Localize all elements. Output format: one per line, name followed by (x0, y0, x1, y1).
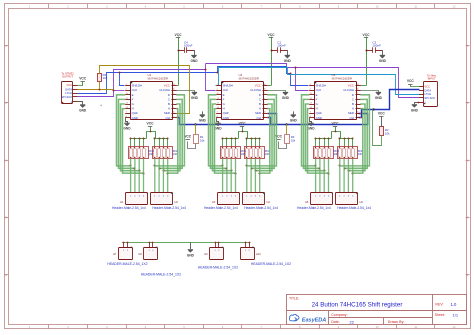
VCC power flag for R3 (275, 135, 286, 149)
wire SH/LD branch to U3 (291, 74, 309, 86)
wire RN2 column 1 to header pin (154, 159, 156, 193)
wire VCC distribution (147, 132, 156, 139)
wire LTCH bus middle segment (blue) (218, 67, 291, 74)
wire RN5 column 1 to header pin (315, 159, 317, 193)
svg-text:B: B (259, 102, 261, 106)
svg-text:INPUT: INPUT (428, 77, 436, 81)
svg-text:B: B (168, 102, 170, 106)
svg-text:VCC: VCC (268, 33, 276, 37)
VCC power flag for RN5/RN6 (332, 122, 340, 132)
capacitor C4 100nF (178, 40, 195, 53)
svg-text:GND: GND (214, 127, 222, 131)
header H7 Header-Male-2.54_1x2 (107, 242, 147, 267)
svg-text:VCC: VCC (332, 122, 340, 126)
svg-text:H10: H10 (256, 252, 261, 256)
svg-text:CLK: CLK (316, 88, 322, 92)
svg-text:1.0: 1.0 (451, 302, 457, 307)
header H9 Header-Male-2.54_1x2 (198, 242, 238, 270)
svg-text:10K: 10K (173, 152, 178, 156)
svg-text:10K: 10K (241, 152, 246, 156)
VCC power flag for RN3/RN4 (239, 122, 247, 132)
wire CLK branch to U1 (114, 90, 125, 92)
svg-text:GND: GND (411, 108, 419, 112)
svg-text:GND: GND (223, 116, 229, 120)
svg-text:D: D (168, 93, 170, 97)
wire button line C of U3 (344, 99, 367, 168)
resistor network RN5 10K (314, 147, 334, 159)
svg-text:QH#: QH# (316, 111, 322, 115)
svg-text:GND: GND (190, 59, 198, 63)
ground at U1 pin 8 (123, 118, 131, 131)
svg-text:VCC: VCC (255, 84, 261, 88)
wire VCC rail right (248, 138, 260, 140)
svg-text:SH/LD#: SH/LD# (316, 84, 327, 88)
svg-text:SPI-SCK: SPI-SCK (424, 96, 435, 100)
svg-text:H4: H4 (267, 200, 271, 204)
svg-text:VCC: VCC (348, 84, 354, 88)
junction DATA / R4 (99, 89, 101, 91)
wire RN4 column 4 to header pin (259, 159, 261, 193)
svg-text:GND: GND (79, 109, 87, 113)
svg-text:SN74HC165DR: SN74HC165DR (239, 77, 259, 81)
svg-text:VCC: VCC (407, 79, 415, 83)
header H1 Header-Male-2.54_1x4 (112, 193, 147, 211)
svg-text:Header-Male-2.54_1x4: Header-Male-2.54_1x4 (204, 206, 238, 210)
svg-text:H: H (316, 107, 318, 111)
wire button line C of U2 (251, 99, 274, 168)
VCC power flag above C2 (268, 33, 276, 38)
wire VCC rail right (341, 138, 353, 140)
wire VCC drop to IC pin 16 (271, 37, 273, 86)
svg-text:100nF: 100nF (277, 44, 286, 48)
svg-text:A: A (168, 107, 170, 111)
resistor network RN4 10K (245, 147, 265, 159)
svg-text:10k: 10k (385, 132, 390, 136)
wire button line F of U2 (211, 99, 227, 168)
svg-text:CLKINH: CLKINH (250, 88, 261, 92)
wire RN2 column 2 to header pin (158, 159, 160, 193)
wire LTCH bus left segment (blue) (78, 73, 218, 94)
svg-text:HEADER-MALE-2.54_1X2: HEADER-MALE-2.54_1X2 (198, 266, 238, 270)
svg-text:D: D (5, 217, 7, 220)
svg-text:10K: 10K (358, 152, 363, 156)
svg-text:VCC: VCC (175, 33, 183, 37)
wire RN5 column 3 to header pin (323, 159, 325, 193)
resistor network RN1 10K (129, 147, 149, 159)
wire serial chain U2.QH to U3.SER (268, 114, 368, 125)
svg-text:H1: H1 (120, 200, 124, 204)
wire RN3 column 4 to header pin (235, 159, 237, 193)
svg-text:10k: 10k (103, 76, 108, 80)
svg-text:GND: GND (187, 254, 195, 258)
svg-text:SPI-SCK: SPI-SCK (61, 95, 72, 99)
wire RN6 column 2 to header pin (343, 159, 345, 193)
svg-text:100nF: 100nF (184, 44, 193, 48)
svg-text:H8: H8 (138, 252, 142, 256)
svg-text:VCC: VCC (79, 77, 87, 81)
svg-text:CLKINH: CLKINH (343, 88, 354, 92)
wire R4 to VCC net (olive) (100, 66, 190, 114)
ground on header rail (187, 242, 195, 257)
svg-text:H2: H2 (175, 200, 179, 204)
header H8 Header-Male-2.54_1x2 (138, 242, 181, 277)
wire RN6 column 3 to header pin (347, 159, 349, 193)
wire RN1 column 3 to header pin (138, 159, 140, 193)
svg-text:QH: QH (166, 116, 170, 120)
wire VCC rail left (223, 138, 239, 140)
connector H14 To Next INPUT (419, 73, 437, 106)
svg-text:VCC: VCC (184, 135, 192, 139)
svg-text:EasyEDA: EasyEDA (302, 317, 326, 323)
ground at U1 CLKINH (177, 91, 199, 101)
svg-text:Date:: Date: (331, 320, 340, 324)
svg-text:SER: SER (164, 111, 170, 115)
svg-text:10K: 10K (334, 152, 339, 156)
svg-text:E: E (316, 93, 318, 97)
svg-text:SN74HC165DR: SN74HC165DR (148, 77, 168, 81)
svg-text:REV:: REV: (435, 303, 443, 307)
wire button line A of U1 (168, 109, 178, 174)
ground at connector pin 1 (78, 102, 87, 113)
wire button line C of U1 (159, 99, 182, 168)
wire VCC drop to IC pin 16 (366, 37, 368, 86)
ground below C2 (284, 50, 292, 63)
wire CLK branch to U3 (296, 68, 309, 91)
wire button line A of U2 (260, 109, 270, 174)
wire RN2 column 3 to header pin (162, 159, 164, 193)
wire button line A of U3 (353, 109, 363, 174)
svg-text:C: C (168, 97, 170, 101)
svg-text:SER: SER (348, 111, 354, 115)
svg-text:HEADER-MALE-2.54_1X2: HEADER-MALE-2.54_1X2 (107, 262, 147, 266)
VCC power flag for R2 (378, 112, 386, 127)
svg-text:H3: H3 (212, 200, 216, 204)
wire button line D of U1 (155, 95, 185, 166)
wire VCC rail right (156, 138, 168, 140)
wire serial chain U3.QH to connector DATA (359, 90, 420, 118)
wire RN1 column 1 to header pin (130, 159, 132, 193)
resistor R1 10k (194, 124, 206, 144)
svg-text:CLK: CLK (223, 88, 229, 92)
title block (286, 294, 466, 325)
wire button line H of U2 (215, 109, 236, 174)
svg-text:VCC: VCC (363, 33, 371, 37)
svg-text:Header-Male-2.54_1x4: Header-Male-2.54_1x4 (297, 206, 331, 210)
svg-text:VCC: VCC (378, 112, 386, 116)
svg-text:H: H (132, 107, 134, 111)
svg-text:Header-Male-2.54_1x4: Header-Male-2.54_1x4 (244, 206, 278, 210)
header H6 Header-Male-2.54_1x4 (336, 193, 372, 211)
wire button line B of U3 (348, 104, 365, 171)
wire button line D of U2 (247, 95, 277, 166)
ground at U3 CLKINH (361, 91, 383, 101)
svg-text:VCC: VCC (147, 122, 155, 126)
wire button line D of U3 (340, 95, 370, 166)
svg-text:GND: GND (284, 59, 292, 63)
wire button line B of U1 (163, 104, 180, 171)
wire R2 to chain (373, 110, 382, 146)
svg-text:22: 22 (350, 319, 355, 324)
svg-text:GND: GND (132, 116, 138, 120)
svg-text:Drawn By:: Drawn By: (388, 320, 405, 324)
ground near U2 SER (290, 111, 298, 122)
svg-text:QH#: QH# (223, 111, 229, 115)
svg-text:GND: GND (375, 96, 383, 100)
wire RN4 column 2 to header pin (250, 159, 252, 193)
wire VCC distribution (239, 132, 248, 139)
svg-text:QH: QH (257, 116, 261, 120)
svg-text:QH: QH (350, 116, 354, 120)
ground near U1 SER (199, 111, 207, 122)
svg-text:24 Button 74HC165 Shift regist: 24 Button 74HC165 Shift register (312, 301, 403, 308)
svg-text:LTCH: LTCH (424, 92, 431, 96)
svg-text:SH/LD#: SH/LD# (132, 84, 143, 88)
svg-text:SER: SER (255, 111, 261, 115)
svg-text:F: F (223, 97, 225, 101)
VCC power flag at right connector (407, 79, 420, 87)
ground at right connector pin 1 (411, 102, 420, 113)
wire button line B of U2 (255, 104, 272, 171)
resistor R2 10k (380, 127, 391, 136)
wire button line G of U1 (121, 104, 140, 171)
svg-text:C: C (5, 159, 7, 162)
header H5 Header-Male-2.54_1x4 (297, 193, 332, 211)
wire button line E of U3 (302, 95, 316, 166)
wire button line F of U3 (304, 99, 320, 168)
wire VCC distribution (332, 132, 341, 139)
wire RN4 column 3 to header pin (254, 159, 256, 193)
wire RN1 column 4 to header pin (143, 159, 145, 193)
svg-text:10k: 10k (291, 139, 296, 143)
IC U3 SN74HC165DR (309, 73, 361, 120)
svg-text:CLKINH: CLKINH (159, 88, 170, 92)
wire RN4 column 1 to header pin (246, 159, 248, 193)
wire SPI-SCK bus left segment (purple) (78, 70, 206, 97)
wire button line E of U2 (209, 95, 223, 166)
wire RN1 column 2 to header pin (134, 159, 136, 193)
svg-text:A: A (352, 107, 354, 111)
wire SPI-SCK bus to U2 CLK (206, 64, 216, 91)
svg-text:H: H (223, 107, 225, 111)
wire RN3 column 2 to header pin (226, 159, 228, 193)
wire RN2 column 4 to header pin (167, 159, 169, 193)
junction chain / R3 (285, 123, 287, 125)
VCC power flag above C4 (175, 33, 183, 38)
wire SPI-SCK bus right segment (purple) (206, 64, 420, 98)
svg-text:H9: H9 (204, 252, 208, 256)
header H2 Header-Male-2.54_1x4 (151, 193, 187, 211)
capacitor C2 100nF (271, 40, 288, 53)
svg-text:D: D (467, 217, 469, 220)
svg-text:OUTPUT: OUTPUT (62, 74, 73, 78)
svg-text:A: A (259, 107, 261, 111)
svg-text:Header-Male-2.54_1x4: Header-Male-2.54_1x4 (112, 206, 146, 210)
VCC power flag above C3 (363, 33, 371, 38)
svg-text:10K: 10K (149, 152, 154, 156)
wire button line F of U1 (119, 99, 135, 168)
svg-text:VCC: VCC (239, 122, 247, 126)
svg-text:GND: GND (307, 127, 315, 131)
svg-text:GND: GND (379, 59, 387, 63)
svg-text:QH#: QH# (132, 111, 138, 115)
wire DATA from connector (olive) (78, 89, 114, 91)
wire RN6 column 1 to header pin (339, 159, 341, 193)
svg-text:H7: H7 (113, 252, 117, 256)
svg-text:LTCH: LTCH (65, 91, 72, 95)
wire VCC rail left (316, 138, 332, 140)
svg-text:SH/LD#: SH/LD# (223, 84, 234, 88)
svg-text:F: F (316, 97, 318, 101)
svg-text:C: C (467, 159, 469, 162)
ground at U3 pin 8 (307, 118, 315, 131)
connector H13 To STM32 OUTPUT (61, 71, 77, 103)
resistor network RN6 10K (338, 147, 358, 159)
VCC power flag for R1 (184, 135, 195, 149)
wire button line H of U1 (123, 109, 144, 174)
svg-text:SN74HC165DR: SN74HC165DR (332, 77, 352, 81)
svg-text:CLK: CLK (132, 88, 138, 92)
resistor R4 10k (98, 73, 108, 89)
svg-text:GND: GND (123, 127, 131, 131)
svg-text:DATA: DATA (424, 88, 431, 92)
resistor network RN3 10K (221, 147, 241, 159)
wire RN6 column 4 to header pin (352, 159, 354, 193)
wire VCC drop to IC pin 16 (178, 37, 180, 86)
header H10 Header-Male-2.54_1x2 (241, 242, 292, 267)
svg-text:DATA: DATA (65, 87, 72, 91)
junction chain / R2 (372, 108, 374, 110)
wire RN5 column 2 to header pin (319, 159, 321, 193)
svg-text:GND: GND (282, 96, 290, 100)
capacitor C3 100nF (366, 40, 383, 53)
wire button line H of U3 (308, 109, 329, 174)
wire button line G of U2 (213, 104, 232, 171)
header H4 Header-Male-2.54_1x4 (243, 193, 279, 211)
wire LTCH continuation to next connector (cyan) (216, 68, 420, 95)
svg-text:Sheet:: Sheet: (435, 313, 445, 317)
svg-text:GND: GND (290, 119, 298, 123)
IC U1 SN74HC165DR (125, 73, 177, 120)
wire RN5 column 4 to header pin (328, 159, 330, 193)
ground at U2 CLKINH (268, 91, 290, 101)
wire button line G of U3 (306, 104, 325, 171)
svg-text:10k: 10k (200, 139, 205, 143)
svg-text:C: C (352, 97, 354, 101)
wire SH/LD branch to U1 (120, 73, 125, 86)
svg-text:VCC: VCC (164, 84, 170, 88)
svg-text:H6: H6 (360, 200, 364, 204)
ground at U2 pin 8 (214, 118, 222, 131)
wire VCC rail left (131, 138, 147, 140)
resistor R3 10k (285, 124, 296, 144)
EasyEDA logo (289, 314, 326, 323)
svg-text:H5: H5 (305, 200, 309, 204)
svg-text:10K: 10K (265, 152, 270, 156)
wire RN3 column 1 to header pin (222, 159, 224, 193)
svg-text:GND: GND (199, 119, 207, 123)
svg-text:VCC: VCC (66, 83, 72, 87)
svg-text:TITLE:: TITLE: (289, 296, 299, 300)
wire button line E of U1 (117, 95, 131, 166)
svg-text:100nF: 100nF (372, 44, 381, 48)
svg-text:F: F (132, 97, 134, 101)
svg-text:Header-Male-2.54_1x4: Header-Male-2.54_1x4 (337, 206, 371, 210)
svg-text:VCC: VCC (424, 85, 430, 89)
svg-text:Header-Male-2.54_1x4: Header-Male-2.54_1x4 (152, 206, 186, 210)
svg-text:HEADER-MALE-2.54_1X2: HEADER-MALE-2.54_1X2 (141, 272, 181, 276)
svg-text:D: D (352, 93, 354, 97)
svg-text:E: E (223, 93, 225, 97)
svg-text:HEADER-MALE-2.54_1X2: HEADER-MALE-2.54_1X2 (251, 262, 291, 266)
svg-text:GND: GND (316, 116, 322, 120)
IC U2 SN74HC165DR (216, 73, 268, 120)
ground below C3 (379, 50, 387, 63)
svg-text:C: C (259, 97, 261, 101)
svg-text:D: D (259, 93, 261, 97)
svg-text:1/1: 1/1 (453, 312, 459, 317)
svg-text:Company:: Company: (331, 313, 347, 317)
junction chain / R1 (194, 123, 196, 125)
svg-text:GND: GND (191, 96, 199, 100)
VCC power flag for RN1/RN2 (147, 122, 155, 132)
header H3 Header-Male-2.54_1x4 (204, 193, 239, 211)
wire serial chain U1.QH to U2.SER (177, 114, 277, 125)
ground below C4 (190, 50, 198, 63)
VCC power flag at connector (78, 77, 87, 86)
wire GND rail for 1x2 headers (122, 242, 250, 244)
resistor network RN2 10K (153, 147, 173, 159)
wire RN3 column 3 to header pin (230, 159, 232, 193)
svg-text:E: E (132, 93, 134, 97)
svg-text:B: B (352, 102, 354, 106)
